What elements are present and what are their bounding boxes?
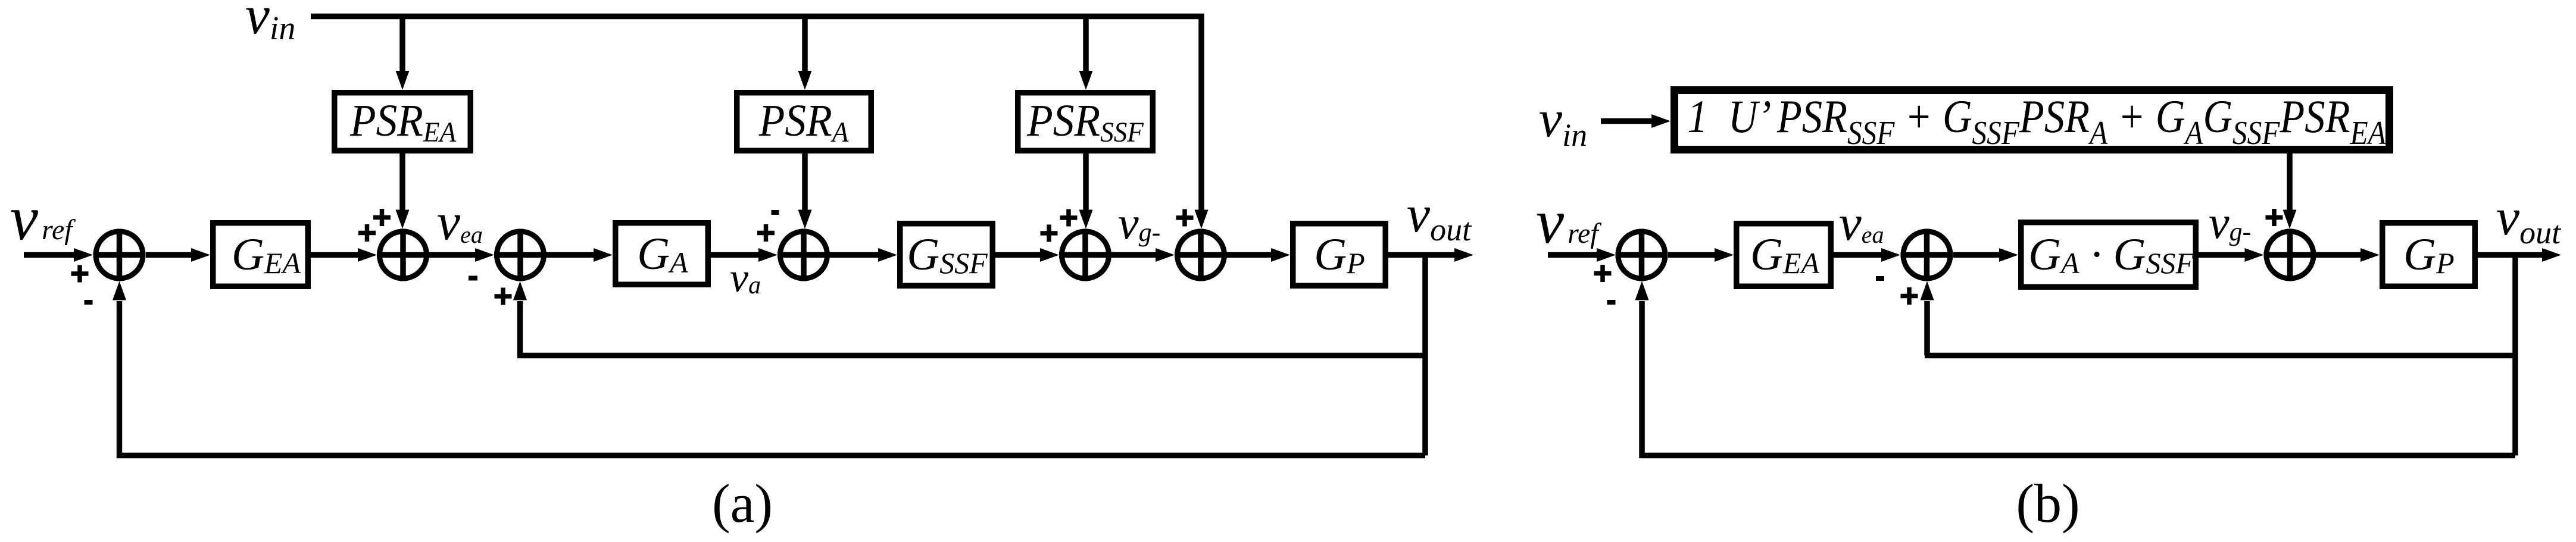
block PSR combined (b) <box>1675 90 2390 152</box>
wire inner feedback riser to S2b <box>1921 281 1934 356</box>
svg-text:vout: vout <box>1407 186 1472 247</box>
wire S2b to GA.GSSF block <box>1953 248 2018 262</box>
sign plus at S1b <box>1594 265 1612 282</box>
wire outer feedback riser to S1 <box>113 281 126 459</box>
summer S6 (a) <box>1175 229 1227 281</box>
sign minus at S4 <box>772 210 779 215</box>
sign plus vertical-input at S5 <box>1060 209 1078 227</box>
sign plus at S3b <box>2266 209 2283 226</box>
wire v_ref input (a) <box>24 248 93 262</box>
wire v_in arrow into PSR block (b) <box>1601 114 1671 128</box>
svg-text:vg-: vg- <box>1118 197 1160 249</box>
wire PSR_A output to summer S4 <box>798 153 812 229</box>
sign plus at S3 <box>495 288 512 305</box>
wire outer feedback bottom (b) <box>1640 453 2515 459</box>
wire S3b to G_P (b) <box>2316 248 2380 262</box>
node v_out label (b) <box>2496 189 2562 250</box>
node v_ref label (a) <box>10 183 76 253</box>
svg-text:vg-: vg- <box>2209 196 2251 248</box>
svg-text:vea: vea <box>437 193 483 251</box>
block G_EA (b) <box>1737 224 1831 287</box>
wire S1 to G_EA <box>146 248 210 262</box>
sign plus at S2b <box>1901 287 1918 305</box>
wire S6 to G_P <box>1227 248 1290 262</box>
block G_P (b) <box>2383 223 2475 287</box>
wire S1b to G_EA (b) <box>1668 248 1734 262</box>
wire S4 to G_SSF <box>830 248 897 262</box>
summer S3 (a) <box>494 229 547 281</box>
wire G_A input <box>547 248 613 262</box>
summer S1b (b) <box>1616 229 1668 281</box>
sign plus at S6 <box>1176 209 1194 227</box>
summer S2b (b) <box>1901 229 1953 281</box>
sign plus vertical-input at S2 <box>373 209 391 226</box>
wire PSR block output to summer S3b <box>2283 153 2297 229</box>
sign plus horizontal-input at S5 <box>1041 225 1058 242</box>
wire inner feedback riser to S3 <box>513 281 527 356</box>
wire v_out junction drop (a) <box>1422 255 1428 456</box>
wire G_EA to summer S2b <box>1834 248 1900 262</box>
block PSR_A <box>737 93 872 151</box>
sign minus at S2b <box>1876 276 1884 281</box>
block G_A.G_SSF (b) <box>2021 223 2196 287</box>
wire S2 to summer S3 <box>429 248 494 262</box>
wire block to summer S3b <box>2199 248 2264 262</box>
svg-text:vref: vref <box>10 183 76 253</box>
wire v_in drop to summer S6 <box>1195 210 1209 229</box>
wire v_in drop to PSR_A <box>798 17 812 90</box>
node v_ref label (b) <box>1536 187 1601 256</box>
wire G_A to summer S4 <box>711 248 778 262</box>
wire v_ref input (b) <box>1548 248 1616 262</box>
wire v_in drop to PSR_EA <box>396 17 410 90</box>
sign plus at summer S1 <box>71 265 89 283</box>
node v_ea label (b) <box>1839 195 1884 251</box>
svg-text:va: va <box>730 255 761 301</box>
summer S2 (a) <box>377 229 429 281</box>
caption (a) <box>712 473 773 534</box>
wire v_in top distribution line (a) <box>311 17 1201 212</box>
wire inner feedback horizontal (b) <box>1925 353 2515 359</box>
node v_in label (a) <box>245 0 295 47</box>
wire S5 to summer S6 <box>1111 248 1175 262</box>
svg-text:(a): (a) <box>712 473 773 534</box>
node v_g- label (a) <box>1118 197 1160 249</box>
wire G_EA to summer S2 <box>311 248 377 262</box>
summer S3b (b) <box>2264 229 2316 281</box>
sign minus at S1b <box>1607 300 1616 305</box>
node v_out label (a) <box>1407 186 1472 247</box>
node v_ea label (a) <box>437 193 483 251</box>
sign minus at summer S1 <box>85 300 93 305</box>
node v_a label (a) <box>730 255 761 301</box>
svg-text:vref: vref <box>1536 187 1601 256</box>
summer S1 (a) <box>93 229 146 281</box>
wire v_out output (b) <box>2478 248 2561 262</box>
wire outer feedback bottom (a) <box>117 453 1425 459</box>
wire outer feedback riser to S1b <box>1635 281 1649 459</box>
wire v_out junction drop (b) <box>2512 255 2518 456</box>
block G_A (a) <box>616 223 708 285</box>
svg-text:vout: vout <box>2496 189 2562 250</box>
wire G_SSF to summer S5 <box>995 248 1059 262</box>
wire v_in drop to PSR_SSF <box>1079 17 1093 90</box>
wire PSR_EA output to summer S2 <box>396 153 410 229</box>
block G_EA (a) <box>213 223 308 287</box>
summer S5 (a) <box>1059 229 1111 281</box>
svg-text:vin: vin <box>1539 90 1587 153</box>
sign plus at S4 <box>757 224 775 242</box>
sign plus horizontal-input at S2 <box>358 224 376 242</box>
caption (b) <box>2016 473 2079 534</box>
block PSR_SSF <box>1018 93 1153 151</box>
svg-text:(b): (b) <box>2016 473 2079 534</box>
svg-text:vea: vea <box>1839 195 1884 251</box>
node v_g- label (b) <box>2209 196 2251 248</box>
wire PSR_SSF output to summer S5 <box>1079 153 1093 229</box>
wire inner feedback horizontal (a) <box>517 353 1425 359</box>
block G_P (a) <box>1293 224 1386 286</box>
block PSR_EA <box>335 93 471 151</box>
node v_in label (b) <box>1539 90 1587 153</box>
block G_SSF (a) <box>900 224 993 286</box>
sign minus at S3 <box>469 276 477 281</box>
svg-text:vin: vin <box>245 0 295 47</box>
wire v_out output (a) <box>1388 248 1473 262</box>
summer S4 (a) <box>778 229 830 281</box>
